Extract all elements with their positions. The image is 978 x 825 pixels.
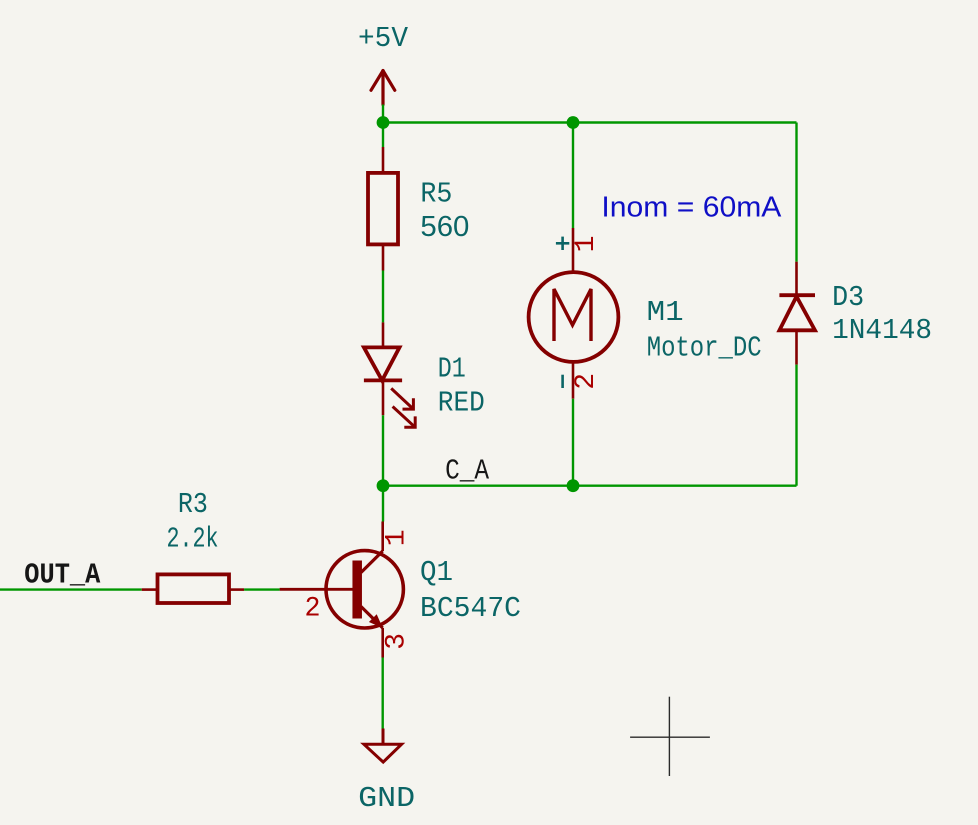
svg-text:BC547C: BC547C [420,592,521,625]
wire C_A to Q1 collector [382,486,384,522]
wire D3 to C_A rail [795,365,797,486]
svg-text:C_A: C_A [445,455,489,488]
transistor Q1 [280,522,404,658]
svg-text:+5V: +5V [358,22,409,55]
resistor R3 [142,574,244,603]
svg-text:1: 1 [382,529,413,546]
svg-text:Motor_DC: Motor_DC [647,332,762,365]
wire C_A horizontal [383,485,797,487]
sheet origin crosshair [630,697,710,776]
wire R5 to D1 [382,271,384,323]
svg-text:1: 1 [571,236,602,253]
svg-text:R5: R5 [420,178,452,211]
power symbol +5V [371,71,395,105]
svg-text:OUT_A: OUT_A [24,559,101,592]
Q1 emitter arrow [369,614,383,628]
svg-text:M1: M1 [647,296,684,329]
junction at C_A left [377,479,390,492]
diode D3 [779,262,815,365]
svg-text:2: 2 [571,373,602,390]
motor M1 [529,228,619,399]
wire R3 to Q1 base [244,588,280,590]
svg-text:D1: D1 [438,352,466,385]
junction at motor bottom [567,479,580,492]
svg-text:R3: R3 [178,488,208,521]
wire D1 to collector node [382,415,384,486]
LED D1 [364,322,415,427]
wire top rail to D3 [795,123,797,262]
M1 pin name + [556,237,569,250]
svg-text:2: 2 [305,594,321,625]
wire top rail horizontal [383,121,797,123]
svg-text:560: 560 [420,211,469,243]
wire from +5V to top rail [382,105,384,123]
svg-text:GND: GND [358,782,415,815]
svg-text:1N4148: 1N4148 [832,314,932,347]
wire motor to C_A rail [572,399,574,486]
svg-text:RED: RED [438,387,485,420]
ground [364,729,402,763]
wire Q1 emitter to GND [382,658,384,729]
junction at +5V rail left [377,116,390,129]
wire top rail to R5 [382,123,384,148]
resistor R5 [368,147,398,271]
wire top rail to motor [572,123,574,229]
wire OUT_A to R3 [0,588,142,590]
svg-text:Inom = 60mA: Inom = 60mA [601,192,782,224]
M1 pin name - [561,375,564,388]
junction at motor top [567,116,580,129]
svg-text:Q1: Q1 [420,556,453,589]
svg-text:D3: D3 [832,281,864,314]
svg-text:3: 3 [382,633,413,650]
svg-text:2.2k: 2.2k [167,523,219,556]
